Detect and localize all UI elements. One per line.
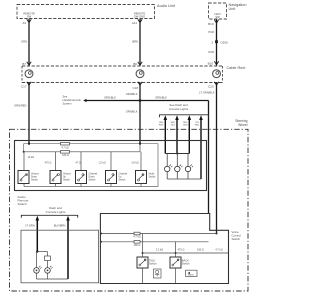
svg-text:Cable Reel: Cable Reel <box>227 66 246 70</box>
svg-text:B10: B10 <box>208 61 214 65</box>
resistor R1 4.7 kohm (in inner box top rail) <box>61 142 70 149</box>
svg-text:Switch: Switch <box>31 178 39 181</box>
svg-text:ORN/BLK: ORN/BLK <box>155 96 167 100</box>
svg-text:B10: B10 <box>208 22 214 26</box>
wire BRN (audio unit A11 to cable reel B6) <box>132 19 140 66</box>
navigation unit pin label NAVI SW <box>214 12 220 19</box>
resistor R3 (bulb 2 series) <box>37 252 50 268</box>
audio unit U1 (dashed component box) <box>17 3 176 19</box>
svg-text:180 Ω: 180 Ω <box>197 249 204 252</box>
bracket to dash and console lights (bottom) <box>21 215 77 218</box>
steering wheel boundary (chain line box) <box>10 119 249 291</box>
svg-text:Switch: Switch <box>149 262 157 266</box>
talk switch ground wire <box>142 268 144 284</box>
wire GRN/RED (cable reel C17 to audio remote switch) <box>14 83 29 144</box>
svg-text:B7: B7 <box>22 62 26 66</box>
svg-text:ORN/BLK: ORN/BLK <box>104 96 116 100</box>
svg-text:PUR: PUR <box>208 50 214 54</box>
wire ORN (audio unit A3 to cable reel B7) <box>21 19 29 66</box>
svg-text:Switch: Switch <box>119 178 127 181</box>
svg-text:Wheel: Wheel <box>238 123 248 127</box>
talk switch <box>137 257 157 268</box>
switch branch wires and value labels <box>24 152 141 171</box>
svg-text:Switch: Switch <box>149 176 157 179</box>
back switch <box>170 257 190 268</box>
LED D2 <box>175 165 183 172</box>
node junction ORN/BLK <box>139 99 142 102</box>
back switch ground wire <box>175 268 177 284</box>
svg-text:C20: C20 <box>208 85 214 89</box>
wire ORN/BLK branch to voice control switch (right then down) <box>140 96 209 214</box>
svg-text:GRN/RED: GRN/RED <box>14 104 26 108</box>
svg-text:GRN: GRN <box>183 125 188 127</box>
volume down switch <box>18 171 39 184</box>
svg-text:ORN: ORN <box>21 40 27 44</box>
talk switch branch <box>142 234 144 258</box>
wire PUR (navigation unit B10 to C600) <box>208 19 216 65</box>
svg-text:Console Lights: Console Lights <box>46 210 66 214</box>
resistor R2 180 ohm (second rail) <box>23 144 140 158</box>
bulb L1 <box>34 266 42 273</box>
node: GRN/RED entry junction <box>28 143 30 145</box>
svg-text:A3: A3 <box>22 21 26 25</box>
svg-text:ORN/BLK: ORN/BLK <box>126 110 138 114</box>
svg-text:SW: SW <box>27 15 32 19</box>
svg-text:Down: Down <box>31 177 38 179</box>
svg-text:4.7 kΩ: 4.7 kΩ <box>133 236 140 239</box>
svg-text:RED: RED <box>183 122 188 124</box>
svg-text:BLK: BLK <box>171 125 176 127</box>
svg-text:Switch: Switch <box>89 178 97 181</box>
LED D3 <box>185 165 193 172</box>
connector C18 (cable reel lower middle) <box>132 82 142 90</box>
svg-text:BRN: BRN <box>132 40 138 44</box>
wire illumination 1 with up arrow <box>159 115 167 153</box>
connector B10 (female terminal at navigation unit) <box>208 20 219 26</box>
svg-text:Switch: Switch <box>232 237 241 241</box>
LED supply wiring (illumination inside switch) <box>165 152 201 179</box>
connector A3 (female terminal at audio unit) <box>22 19 31 25</box>
node: BRN entry junction <box>139 143 141 145</box>
svg-text:Audio Unit: Audio Unit <box>157 3 176 8</box>
svg-text:LT GRN/BLK: LT GRN/BLK <box>199 91 215 95</box>
wire illumination 2 with up arrow <box>171 115 179 153</box>
connector B6 (cable reel upper) <box>133 62 142 66</box>
svg-text:SW GND: SW GND <box>134 15 145 19</box>
svg-text:470 Ω: 470 Ω <box>45 162 52 165</box>
svg-text:RED: RED <box>159 122 164 124</box>
connector B10 (cable reel upper right) <box>208 61 219 65</box>
svg-text:47 Ω: 47 Ω <box>75 162 80 165</box>
svg-text:Volume: Volume <box>31 174 39 176</box>
svg-text:Down: Down <box>89 177 96 179</box>
svg-text:See: See <box>63 95 68 99</box>
svg-text:Channel: Channel <box>89 174 98 176</box>
microphone symbol box (talk) <box>154 269 162 278</box>
voice ladder rail 3 <box>142 252 229 254</box>
bulb L1 wiring <box>36 252 38 268</box>
resistor R4 4.7 kohm (voice rail 1) <box>100 232 218 238</box>
svg-text:Switch: Switch <box>63 178 71 181</box>
label Dash and Console Lights (bottom callout) <box>46 206 66 214</box>
navigation unit U2 (dashed component box) <box>209 3 247 19</box>
cable reel coil symbol (middle) <box>136 70 144 78</box>
wire illumination 3 with up arrow <box>183 115 191 153</box>
voice control switch SW2 (outer box) <box>100 214 241 284</box>
wire ORN/BLK branch to HandsFreeLink (arrow left) <box>83 96 140 103</box>
svg-text:System: System <box>63 102 73 106</box>
resistor R5 180 ohm (voice rail 2) <box>100 241 209 247</box>
volume up switch <box>50 171 71 184</box>
channel down switch <box>76 171 98 184</box>
svg-text:Switch: Switch <box>182 262 190 266</box>
LED D1 <box>165 165 173 172</box>
svg-text:2.2 kΩ: 2.2 kΩ <box>156 249 163 252</box>
svg-text:WHT: WHT <box>159 125 164 127</box>
bulb L2 <box>45 266 53 273</box>
svg-text:Channel: Channel <box>119 174 128 176</box>
channel up switch <box>106 171 128 184</box>
connector C20 (cable reel lower right) <box>208 82 219 89</box>
connector B7 (cable reel upper) <box>22 62 31 66</box>
svg-text:RED: RED <box>195 125 200 127</box>
svg-text:Volume: Volume <box>63 174 71 176</box>
svg-text:LT GRN: LT GRN <box>25 223 35 227</box>
audio remote switch SW1 (outer box) <box>15 141 207 207</box>
connector C17 (cable reel lower left) <box>21 82 31 89</box>
svg-text:4.7 kΩ: 4.7 kΩ <box>61 146 68 149</box>
svg-text:C17: C17 <box>21 85 27 89</box>
svg-text:Unit: Unit <box>229 7 237 11</box>
audio unit pin label REMOTE SW <box>23 12 35 19</box>
svg-text:BLK/BRN: BLK/BRN <box>54 223 66 227</box>
wire illumination 4 with up arrow <box>195 115 203 179</box>
svg-text:Mode: Mode <box>149 174 156 176</box>
svg-text:ORN/BLK: ORN/BLK <box>126 92 138 96</box>
back indicator box <box>186 270 198 276</box>
cable reel (dashed pass-through band) <box>22 66 245 83</box>
switch common bottom rail <box>24 184 141 187</box>
svg-text:C600: C600 <box>221 41 229 45</box>
svg-text:3.9 kΩ: 3.9 kΩ <box>131 162 138 165</box>
svg-text:C18: C18 <box>132 86 138 90</box>
wire LT GRN (bulb feed) with up arrow <box>25 216 39 251</box>
back switch branch <box>175 242 177 257</box>
svg-text:180 Ω: 180 Ω <box>134 244 141 247</box>
cable reel coil symbol (right) <box>213 70 221 78</box>
mode switch <box>136 171 157 184</box>
svg-text:4.7 kΩ: 4.7 kΩ <box>215 249 222 252</box>
wire BLK/BRN (bulb return) with up arrow <box>54 216 70 279</box>
dash and console lights bulb box <box>21 230 99 283</box>
svg-text:180 Ω: 180 Ω <box>62 154 69 157</box>
connector C600 pin 3 (in-line connector) <box>211 40 228 44</box>
svg-text:A11: A11 <box>132 21 137 25</box>
connector A11 (female terminal at audio unit) <box>132 19 142 25</box>
audio unit pin label REMOTE SW GND <box>134 12 146 19</box>
audio remote switch inner resistor-ladder box <box>24 144 158 187</box>
bulb common return rail <box>37 273 69 279</box>
svg-text:HandsFreeLink: HandsFreeLink <box>63 98 82 102</box>
svg-text:SW: SW <box>215 15 220 19</box>
node bulb feed junction <box>36 250 38 252</box>
svg-text:BACK: BACK <box>188 274 194 277</box>
label See HandsFreeLink System <box>63 95 82 106</box>
label See Dash and Console Lights (top right callout) <box>169 103 189 111</box>
svg-text:RED: RED <box>171 122 176 124</box>
svg-text:470 Ω: 470 Ω <box>178 249 185 252</box>
svg-text:1.2 kΩ: 1.2 kΩ <box>98 162 105 165</box>
wire LT GRN/BLK (cable reel C20 to voice control switch) <box>199 83 216 234</box>
svg-text:Switch: Switch <box>18 202 27 206</box>
svg-text:B6: B6 <box>133 62 137 66</box>
svg-text:Console Lights: Console Lights <box>169 107 189 111</box>
svg-text:10 kΩ: 10 kΩ <box>28 156 35 159</box>
svg-text:PUR: PUR <box>208 30 214 34</box>
cable reel coil symbol (left) <box>25 70 33 78</box>
wire ORN/BLK (cable reel C18 down to junction) <box>126 83 140 144</box>
bracket to dash and console lights <box>160 115 209 118</box>
